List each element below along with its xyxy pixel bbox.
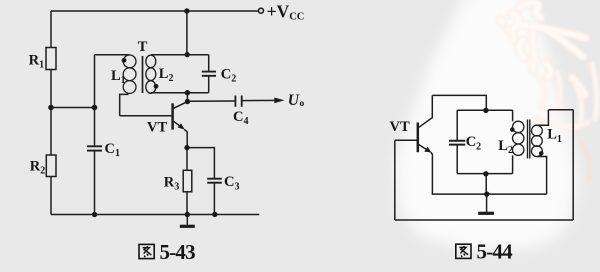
caption fig 5-43 bbox=[139, 240, 195, 264]
polarity dot L1 bbox=[122, 58, 127, 63]
ground bar right bbox=[478, 212, 494, 215]
node: R3 bottom bbox=[185, 212, 190, 217]
svg-text:VT: VT bbox=[147, 120, 167, 136]
wire: L1 bottom lead bbox=[120, 94, 129, 115]
wire: tank left upper bbox=[456, 110, 458, 140]
transistor VT2 emitter arrowhead bbox=[424, 147, 431, 153]
svg-text:o: o bbox=[300, 99, 305, 109]
capacitor C2b bbox=[449, 140, 465, 142]
node: tank top bbox=[185, 52, 190, 57]
inductor L2b (3 loops) bbox=[513, 121, 524, 132]
wire: L1 top lead bbox=[95, 54, 130, 56]
wire: tank top bbox=[151, 54, 209, 56]
wire: emitter node to R3 bbox=[186, 148, 188, 171]
wire: output line bbox=[188, 100, 235, 102]
caption glyph TU (box) bbox=[139, 244, 154, 258]
caption glyph TU (box) right bbox=[456, 244, 471, 258]
node: tank top bbox=[483, 108, 488, 113]
resistor R1 bbox=[46, 48, 56, 70]
transistor VT: base bar bbox=[171, 103, 174, 129]
transformer core right bbox=[527, 120, 529, 159]
capacitor C4 bbox=[234, 96, 236, 107]
wire: C1 branch vertical lower bbox=[94, 151, 96, 215]
junction dots left circuit bbox=[48, 8, 217, 217]
inductor L1 (3 loops) bbox=[123, 55, 136, 68]
resistor R2 bbox=[46, 155, 56, 177]
capacitor C2 bbox=[208, 55, 210, 71]
transformer core bbox=[142, 56, 144, 93]
junction dots right circuit bbox=[483, 108, 543, 197]
arrowhead output bbox=[274, 98, 284, 104]
wire: bottom rail bbox=[51, 214, 259, 216]
svg-text:5-44: 5-44 bbox=[477, 240, 514, 264]
wire: output line after C4 bbox=[242, 99, 279, 101]
wire: Vcc to tank bbox=[186, 11, 188, 55]
wire: base lead bbox=[120, 115, 172, 117]
polarity dot L2b bbox=[510, 127, 515, 132]
capacitor C3 bbox=[207, 178, 222, 180]
wire: left rail between R1 and R2 bbox=[50, 70, 52, 156]
svg-text:T: T bbox=[138, 39, 148, 55]
wire: emitter down bbox=[184, 129, 187, 147]
wire: tank right lower bbox=[512, 155, 514, 173]
node: rail-tank junction top bbox=[184, 8, 189, 13]
resistor R3 bbox=[183, 170, 192, 192]
wire: L1b top lead bbox=[535, 110, 548, 126]
wire: R3 to rail bbox=[186, 192, 188, 215]
wire: left rail lower bbox=[50, 177, 52, 215]
wire: tank top bbox=[457, 109, 512, 111]
labels right circuit bbox=[390, 119, 562, 156]
inductor L1b (3 loops) bbox=[532, 125, 543, 136]
wire: tank left lower bbox=[456, 145, 458, 174]
transistor VT2 emitter bbox=[419, 145, 429, 151]
node: emitter bbox=[184, 145, 189, 150]
node: tank bottom bbox=[483, 171, 488, 176]
caption fig 5-44 bbox=[456, 240, 513, 264]
wire: tank bottom to collector node bbox=[186, 93, 188, 102]
wire: tank bottom bbox=[457, 173, 512, 175]
wire: tank bottom bbox=[151, 92, 209, 94]
wire: left rail upper bbox=[50, 11, 52, 48]
svg-text:VT: VT bbox=[390, 119, 410, 135]
wire: outer right bbox=[572, 110, 574, 220]
inductor L2 (3 loops) bbox=[146, 55, 156, 68]
polarity dot L2 bbox=[154, 84, 159, 89]
wire: tank bottom to ground node bbox=[485, 174, 487, 194]
wire: emitter node to C3 bbox=[187, 148, 214, 179]
polarity dot L1b bbox=[539, 151, 544, 156]
node: tank bottom bbox=[185, 90, 190, 95]
wire: top +Vcc rail bbox=[51, 10, 258, 12]
node: divider right bbox=[92, 105, 98, 111]
wire: outer left bbox=[394, 140, 396, 220]
node: C3 bottom bbox=[212, 212, 217, 217]
transistor VT: emitter bbox=[174, 121, 183, 128]
node: C1 bottom bbox=[92, 212, 97, 217]
node: emitter/ground bbox=[484, 191, 489, 196]
wire: base lead bbox=[395, 139, 417, 141]
labels left circuit bbox=[29, 1, 305, 192]
watermark: large white blob bbox=[394, 0, 578, 250]
svg-text:5-43: 5-43 bbox=[160, 240, 196, 264]
transistor VT: collector bbox=[174, 102, 188, 109]
ground bar bbox=[180, 225, 195, 228]
ground stub right bbox=[486, 194, 488, 212]
wire: outer bottom bbox=[395, 219, 573, 221]
capacitor C1 bbox=[87, 145, 102, 147]
wire: tank right upper bbox=[512, 110, 514, 121]
wire: C1 branch vertical upper bbox=[94, 55, 96, 146]
wire: L1b bottom lead bbox=[537, 157, 547, 195]
node: divider left bbox=[48, 105, 54, 111]
transistor VT: emitter arrowhead bbox=[178, 123, 185, 129]
svg-text:U: U bbox=[288, 92, 300, 109]
wire: C3 to rail bbox=[213, 183, 215, 214]
wire: outer top bbox=[548, 109, 573, 111]
node: collector/output bbox=[185, 99, 190, 104]
ground stub bbox=[186, 215, 188, 226]
wire: collector bridge bbox=[432, 95, 486, 110]
wire: bias node horizontal bbox=[51, 107, 95, 109]
transistor VT2 base bar bbox=[417, 123, 420, 153]
wire: emitter to bottom node bbox=[431, 152, 547, 194]
terminal: +Vcc open circle bbox=[259, 8, 264, 13]
transistor VT2 collector bbox=[419, 95, 432, 127]
